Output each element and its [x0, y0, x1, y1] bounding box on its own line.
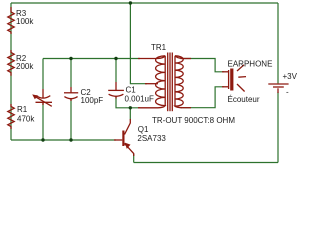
emitter arrow: [125, 143, 131, 149]
resistor R2: [8, 50, 14, 76]
svg-text:2SA733: 2SA733: [137, 134, 166, 143]
resistor R3: [8, 7, 14, 34]
wire right rail lower: [277, 92, 279, 163]
wire mid tank: [43, 58, 140, 60]
secondary attach line: [174, 56, 176, 107]
svg-text:Écouteur: Écouteur: [228, 95, 260, 104]
svg-text:0.001uF: 0.001uF: [125, 95, 154, 104]
junction dot C2 top: [69, 57, 72, 60]
secondary top lead: [181, 58, 192, 60]
capacitor C1: [108, 82, 124, 99]
wire secondary bottom to earphone: [183, 87, 224, 108]
svg-text:470k: 470k: [17, 115, 35, 124]
primary bottom lead: [138, 107, 158, 109]
capacitor C2: [64, 87, 78, 101]
junction dot top rail: [129, 1, 132, 4]
junction dot varcap bottom: [41, 138, 44, 141]
svg-text:R1: R1: [17, 105, 28, 114]
wire top rail: [11, 2, 278, 4]
junction dot C1 top: [114, 57, 117, 60]
wire C2 leads: [70, 59, 72, 88]
svg-text:100k: 100k: [16, 17, 34, 26]
wire vertical to center tap: [130, 3, 147, 84]
primary top lead: [138, 58, 158, 60]
wire collector: [129, 108, 131, 120]
base lead: [114, 139, 122, 141]
svg-text:200k: 200k: [16, 62, 34, 71]
wire secondary top to earphone: [183, 59, 224, 72]
junction dot collector: [129, 106, 132, 109]
resistor R1: [8, 104, 14, 129]
secondary winding: [175, 56, 183, 108]
battery +3V: [268, 80, 288, 93]
thin plate: [228, 70, 230, 89]
emitter lead: [125, 144, 134, 157]
wire varcap leads: [42, 59, 44, 90]
svg-text:EARPHONE: EARPHONE: [228, 60, 273, 69]
dash top: [237, 65, 244, 71]
dash mid: [238, 76, 246, 79]
wire C1 leads: [115, 59, 117, 83]
secondary bottom lead: [181, 107, 192, 109]
primary attach line: [164, 56, 166, 106]
transistor Q1: [114, 119, 134, 156]
wire emitter bottom: [133, 154, 135, 163]
wire bottom right: [134, 162, 278, 164]
svg-text:+3V: +3V: [283, 72, 298, 81]
dash bottom: [237, 84, 245, 92]
svg-text:Q1: Q1: [138, 125, 149, 134]
base bar: [122, 131, 124, 147]
earphone: [222, 65, 246, 92]
svg-text:100pF: 100pF: [81, 96, 104, 105]
wire left rail: [10, 3, 12, 140]
svg-text:TR1: TR1: [151, 43, 167, 52]
wire bottom left (base line): [11, 139, 116, 141]
thick plate: [230, 69, 233, 91]
variable capacitor: [32, 89, 52, 106]
svg-text:-: -: [286, 88, 289, 97]
wire right rail upper: [277, 3, 279, 80]
collector lead: [125, 119, 131, 135]
junction dot C2 bottom: [69, 138, 72, 141]
core: [167, 53, 169, 112]
primary winding: [156, 56, 166, 108]
svg-text:TR-OUT 900CT:8 OHM: TR-OUT 900CT:8 OHM: [152, 116, 235, 125]
center tap lead: [145, 83, 158, 85]
svg-text:C1: C1: [126, 86, 137, 95]
